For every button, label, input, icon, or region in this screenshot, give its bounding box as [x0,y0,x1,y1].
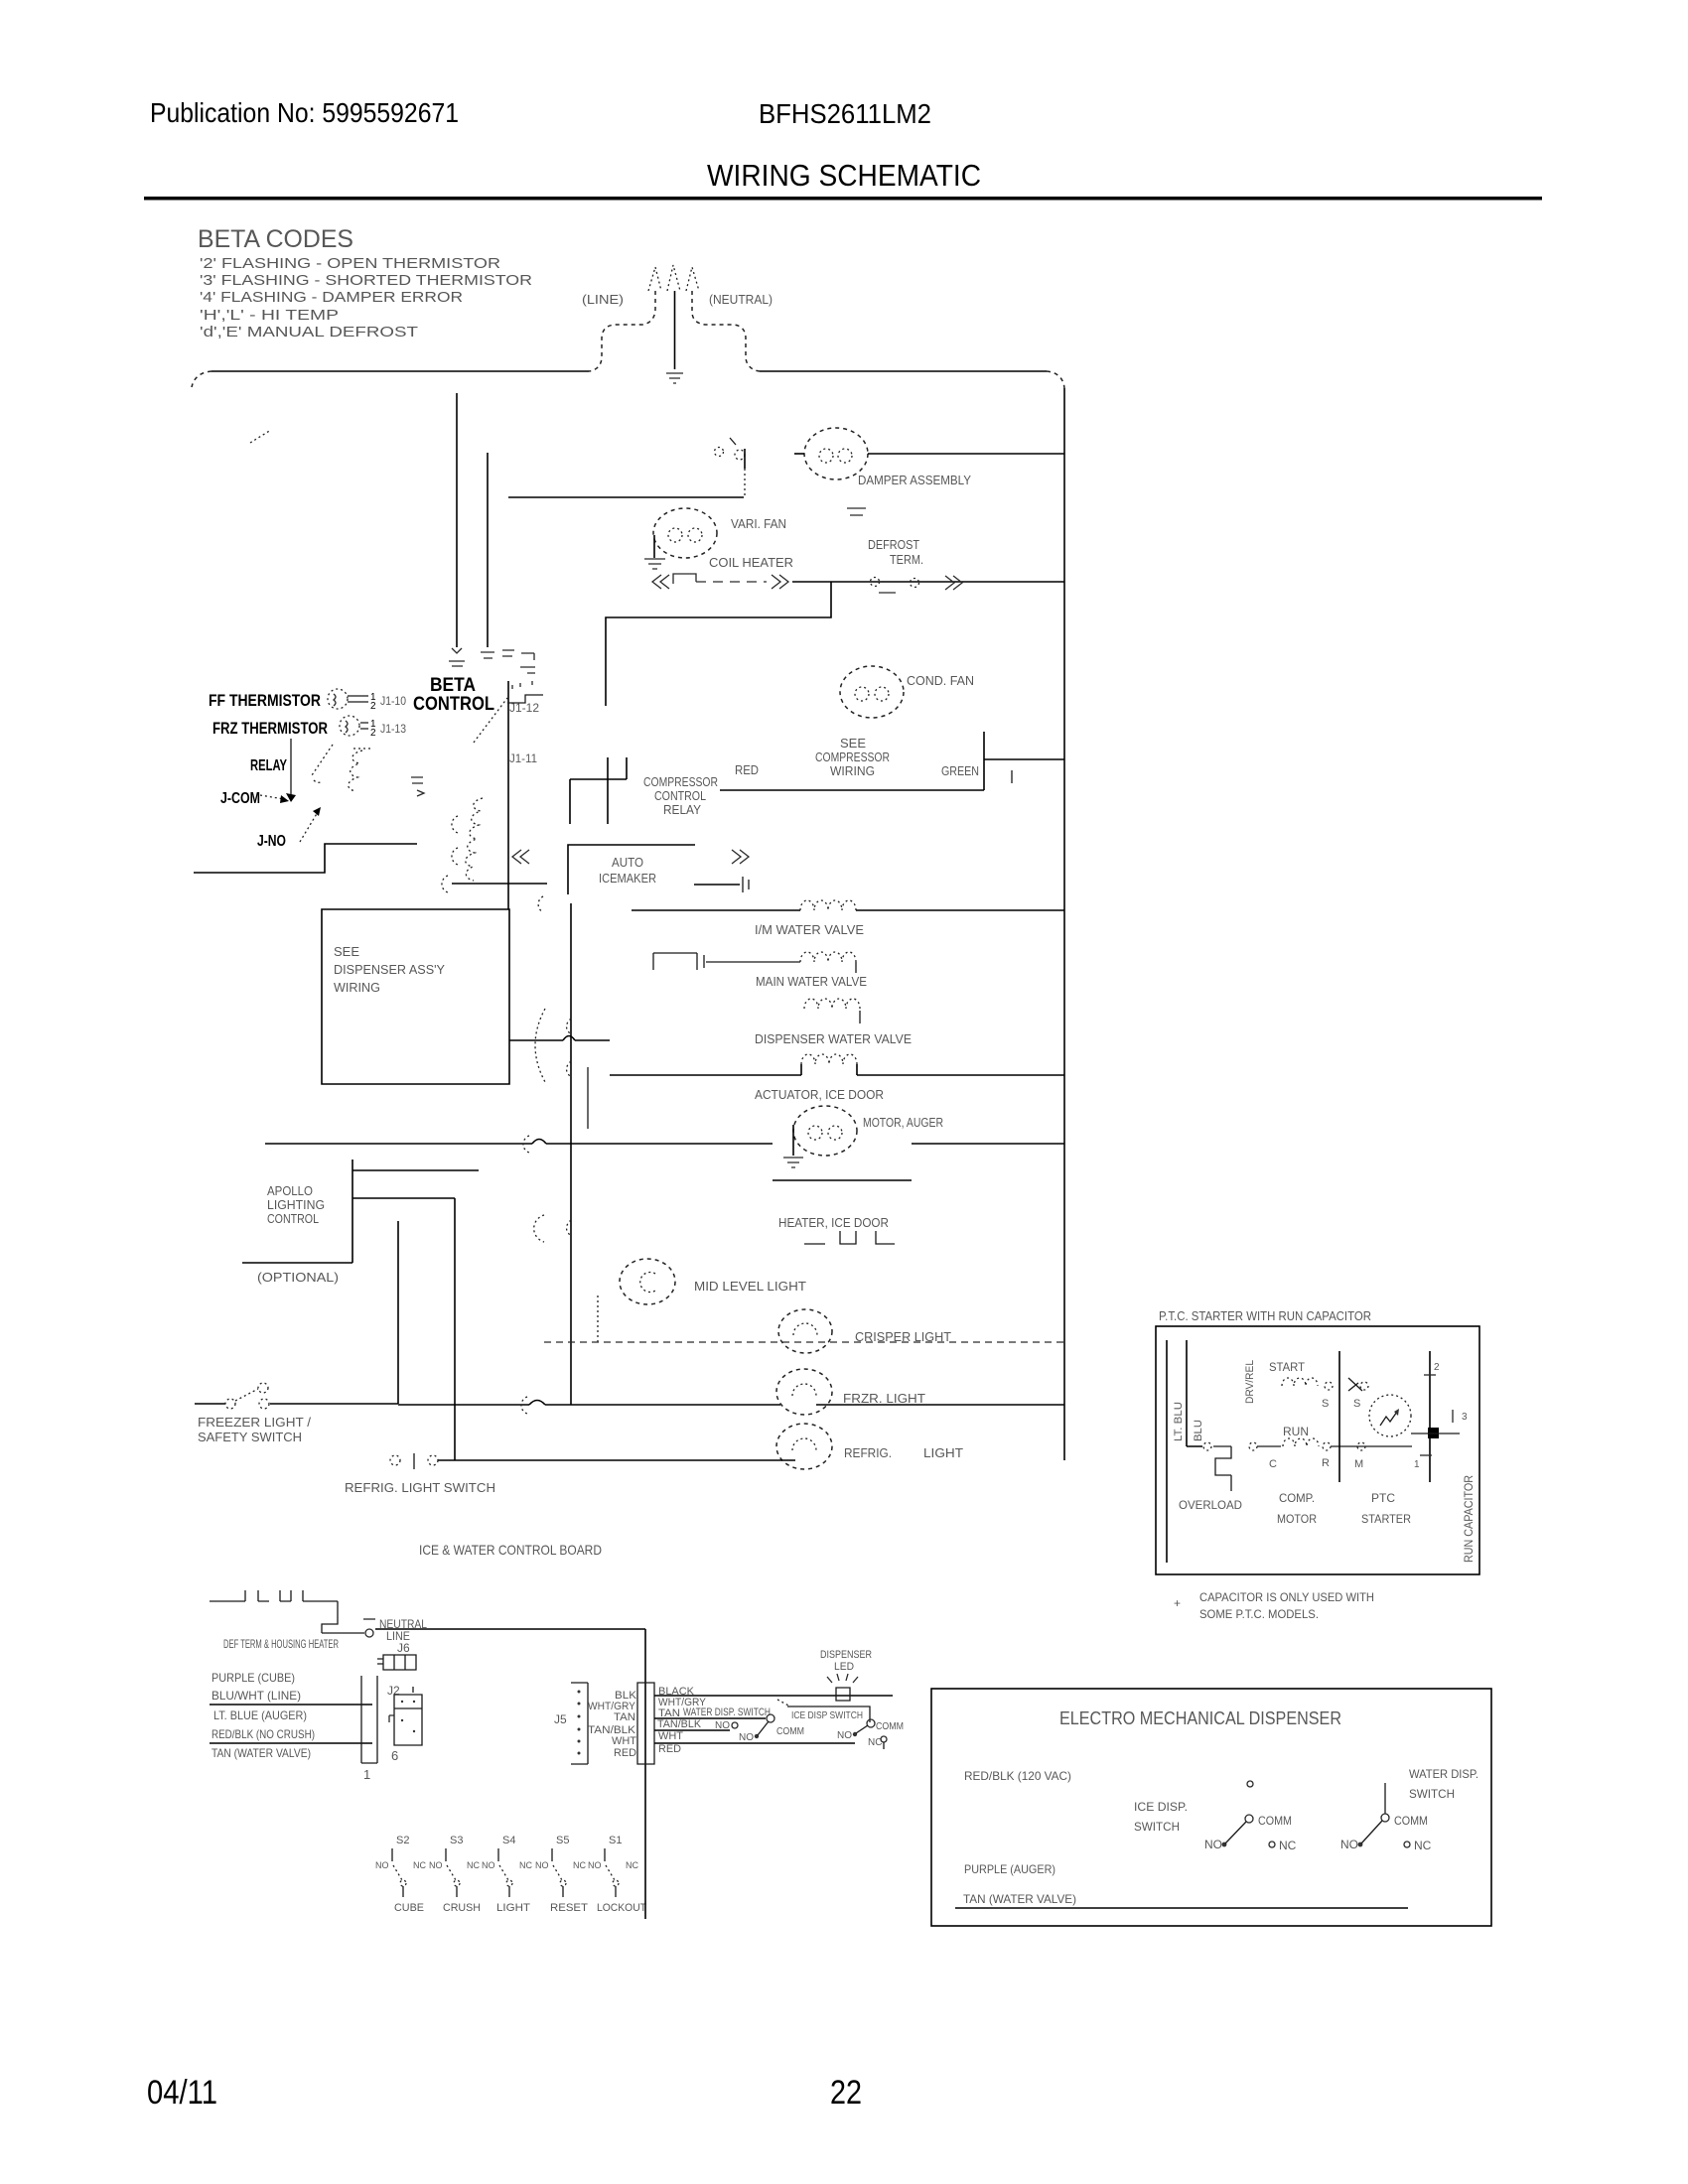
svg-text:COND. FAN: COND. FAN [907,673,974,688]
see dispenser assy box [322,909,509,1084]
green wire tick [1011,770,1013,783]
svg-text:RED/BLK (120 VAC): RED/BLK (120 VAC) [964,1769,1071,1783]
crisper light [778,1309,832,1353]
svg-text:SEE: SEE [840,736,866,751]
svg-text:CUBE: CUBE [394,1902,424,1914]
heater ice door contacts [804,1231,895,1244]
svg-text:NO: NO [1340,1838,1358,1851]
tan wire row [654,1717,766,1719]
power cord plug prong right [686,267,699,291]
svg-text:MOTOR, AUGER: MOTOR, AUGER [863,1115,943,1130]
im water valve coil [800,900,856,910]
selector switch arm arc [535,1009,545,1082]
svg-text:J6: J6 [397,1641,410,1655]
power cord plug prong center [667,265,680,291]
stray contact [1247,1781,1253,1787]
svg-text:DISPENSER: DISPENSER [820,1649,872,1661]
svg-text:RED: RED [735,762,759,777]
svg-text:'3' FLASHING - SHORTED THERMIS: '3' FLASHING - SHORTED THERMISTOR [200,272,532,289]
electro mechanical dispenser box [931,1689,1491,1926]
emd underline [955,1907,1408,1909]
svg-text:WIRING SCHEMATIC: WIRING SCHEMATIC [707,158,981,193]
svg-text:J-COM: J-COM [220,790,260,807]
damper door switch [715,438,746,497]
svg-text:NO: NO [482,1860,495,1870]
svg-text:CONTROL: CONTROL [413,694,494,715]
relay pin marks [411,777,424,796]
svg-text:J1-12: J1-12 [509,701,539,715]
auger supply wire left [265,1143,532,1145]
svg-text:J1-10: J1-10 [380,694,406,708]
blu wht wire [210,1704,372,1706]
wire damper to right bus [868,453,1064,455]
ptc starter box [1156,1326,1479,1574]
svg-text:WATER DISP.: WATER DISP. [1409,1767,1478,1781]
right bus wire [1063,388,1065,1460]
svg-text:SOME P.T.C. MODELS.: SOME P.T.C. MODELS. [1199,1607,1319,1621]
svg-text:STARTER: STARTER [1361,1512,1411,1526]
svg-text:DISPENSER ASS'Y: DISPENSER ASS'Y [334,962,445,977]
svg-text:FF THERMISTOR: FF THERMISTOR [209,691,321,710]
run winding contact C [1249,1442,1257,1450]
svg-text:(LINE): (LINE) [582,292,624,307]
svg-text:BETA: BETA [430,675,476,696]
svg-text:FRZ THERMISTOR: FRZ THERMISTOR [212,719,328,738]
wire run to motor node [1331,1445,1412,1447]
svg-text:2: 2 [1434,1362,1440,1373]
svg-text:SWITCH: SWITCH [1134,1820,1180,1834]
svg-text:'2' FLASHING - OPEN THERMISTOR: '2' FLASHING - OPEN THERMISTOR [200,255,500,272]
svg-text:ICE DISP SWITCH: ICE DISP SWITCH [791,1710,863,1721]
svg-text:J1-13: J1-13 [380,722,406,736]
beta control pin glyphs [449,648,535,673]
svg-text:P.T.C. STARTER WITH RUN CAPACI: P.T.C. STARTER WITH RUN CAPACITOR [1159,1308,1371,1323]
svg-text:C: C [1269,1458,1277,1470]
svg-text:DEF TERM & HOUSING HEATER: DEF TERM & HOUSING HEATER [223,1637,339,1651]
run winding [1283,1438,1319,1446]
svg-text:S4: S4 [502,1835,515,1846]
svg-text:DAMPER ASSEMBLY: DAMPER ASSEMBLY [858,473,971,487]
compressor control relay contacts [570,757,627,824]
svg-text:TAN (WATER VALVE): TAN (WATER VALVE) [211,1746,311,1760]
svg-text:'d','E' MANUAL DEFROST: 'd','E' MANUAL DEFROST [200,324,418,341]
wht wire row [654,1742,855,1744]
J2 cells [389,1695,422,1745]
ptc supply wire [1187,1340,1202,1446]
frzr light wire right [816,1404,1064,1406]
freezer light safety switch [195,1383,398,1409]
svg-text:(OPTIONAL): (OPTIONAL) [257,1270,339,1285]
ptc inner rail [1166,1340,1168,1563]
svg-text:COMM: COMM [1258,1814,1292,1828]
line lead wire [589,291,655,371]
svg-text:GREEN: GREEN [941,763,979,778]
water disp switch [739,1700,804,1743]
emd ice switch [1204,1814,1297,1852]
svg-text:RELAY: RELAY [663,802,701,817]
harness drop [322,1601,364,1633]
svg-text:DISPENSER WATER VALVE: DISPENSER WATER VALVE [755,1031,912,1046]
ptc dial [1369,1395,1411,1436]
svg-text:NO: NO [1204,1838,1222,1851]
svg-text:TAN: TAN [614,1711,635,1723]
ground symbol [666,373,683,383]
wire connector chevrons [945,576,962,590]
svg-text:NC: NC [413,1860,426,1870]
svg-text:PURPLE (AUGER): PURPLE (AUGER) [964,1862,1055,1876]
selector arm arc lower [534,1215,544,1242]
auger ground [783,1158,803,1167]
power cord plug prong left [648,267,661,291]
svg-text:NO: NO [588,1860,602,1870]
neutral wire [375,1629,645,1919]
svg-text:ACTUATOR, ICE DOOR: ACTUATOR, ICE DOOR [755,1087,884,1102]
svg-text:LIGHTING: LIGHTING [267,1197,325,1212]
relay pointer wire [290,739,292,797]
svg-text:04/11: 04/11 [147,2074,217,2112]
board connector [637,1683,654,1764]
apollo wire inner [397,1221,399,1404]
icemaker chevrons [732,850,749,864]
switch S3 [429,1835,481,1914]
run contact R [1323,1442,1331,1450]
selector contact bumps [567,1019,572,1236]
dashed crisper wire [544,1341,1063,1343]
svg-text:S5: S5 [556,1835,569,1846]
J2 pin tick [412,1687,414,1693]
svg-text:NO: NO [837,1730,852,1741]
svg-text:ICE DISP.: ICE DISP. [1134,1800,1188,1814]
dispenser water valve tick [859,1011,861,1024]
J-COM pointer [260,795,284,799]
damper assembly motor [794,428,868,479]
title rule [144,197,1542,201]
svg-text:TERM.: TERM. [890,552,923,567]
icemaker capacitor wire [694,884,740,886]
annotation arrow top-left [250,430,271,443]
svg-text:J-NO: J-NO [257,833,286,850]
switch S5 [535,1835,588,1914]
vari fan ground [644,559,665,569]
main water valve coil [800,952,856,962]
wire heater to defrost thermostat [792,581,1064,583]
svg-text:MAIN WATER VALVE: MAIN WATER VALVE [756,974,867,989]
actuator coil [801,1054,857,1064]
svg-text:MOTOR: MOTOR [1277,1512,1317,1526]
svg-text:PTC: PTC [1371,1491,1395,1505]
ice disp switch [837,1719,904,1749]
overload contact [1203,1442,1211,1450]
defrost thermostat contact marks [847,508,866,515]
start winding contact [1325,1382,1333,1390]
svg-text:1: 1 [1414,1459,1420,1470]
auto icemaker outline [568,845,695,894]
im water valve wire left [632,909,800,911]
frzr light [776,1369,832,1415]
icemaker contact arc [538,896,543,912]
J1-12 connector zigzag [507,695,543,703]
FF thermistor symbol [328,689,376,712]
svg-text:CRUSH: CRUSH [443,1902,481,1914]
svg-text:CONTROL: CONTROL [654,788,706,803]
main water valve wire [706,961,800,963]
wire beta control pin J1 [456,393,458,647]
refrig light [776,1424,832,1469]
svg-text:RUN: RUN [1283,1425,1309,1438]
wire heater drop [606,582,831,706]
svg-text:COMM: COMM [1394,1814,1428,1828]
frzr light wire left [398,1404,529,1406]
svg-text:NO: NO [429,1860,443,1870]
frzr contact arc [521,1397,527,1414]
svg-text:SWITCH: SWITCH [1409,1787,1455,1801]
svg-text:S: S [1322,1398,1329,1410]
svg-text:S2: S2 [396,1835,409,1846]
top-right corner curve [1047,371,1064,388]
auger supply wire right [912,1143,1064,1145]
auger ground wire [792,1125,794,1156]
svg-text:TAN/BLK: TAN/BLK [657,1718,702,1730]
svg-text:WIRING: WIRING [334,980,380,995]
svg-text:APOLLO: APOLLO [267,1183,313,1198]
J5 pin dots [578,1691,581,1755]
switch S1 [588,1835,646,1914]
svg-text:RELAY: RELAY [250,757,287,774]
svg-text:NC: NC [467,1860,480,1870]
contact chevrons [512,850,529,864]
svg-text:RUN CAPACITOR: RUN CAPACITOR [1462,1475,1476,1563]
svg-text:REFRIG.: REFRIG. [844,1445,892,1460]
red blk wire [210,1742,372,1744]
relay armature spring [466,798,483,881]
svg-text:BLU/WHT (LINE): BLU/WHT (LINE) [211,1689,301,1703]
im water valve wire right [856,909,1064,911]
wire beta control pin to dispenser box [507,681,509,909]
top-left corner curve [192,371,211,387]
overload protector [1213,1446,1231,1491]
svg-text:WIRING: WIRING [830,763,875,778]
green wire [984,732,1064,790]
main water valve tick [855,962,857,973]
svg-text:LOCKOUT: LOCKOUT [597,1902,646,1914]
svg-text:ICE & WATER CONTROL BOARD: ICE & WATER CONTROL BOARD [419,1542,602,1558]
capacitor branch wire [1429,1351,1431,1482]
ice disp switch bracket [787,1706,870,1722]
coil heater connector left [652,575,669,589]
J5 bracket [571,1683,588,1764]
condenser fan motor [840,666,904,718]
coil heater element dashed [673,574,696,584]
svg-text:LED: LED [834,1661,854,1673]
svg-text:DEFROST: DEFROST [868,537,919,552]
svg-text:Publication No: 5995592671: Publication No: 5995592671 [150,97,459,128]
svg-text:NO: NO [375,1860,389,1870]
svg-text:NO: NO [739,1732,754,1743]
svg-text:S: S [1353,1398,1360,1410]
svg-text:WHT: WHT [612,1735,636,1747]
svg-text:NO: NO [715,1720,730,1731]
svg-text:WATER DISP. SWITCH: WATER DISP. SWITCH [683,1706,771,1718]
refrig light switch [390,1453,438,1469]
svg-text:TAN (WATER VALVE): TAN (WATER VALVE) [963,1892,1076,1906]
svg-text:+: + [1174,1596,1181,1610]
svg-text:CONTROL: CONTROL [267,1211,319,1226]
auger contact arc [523,1136,529,1153]
svg-text:R: R [1322,1457,1330,1469]
neutral contact [365,1629,373,1637]
relay pointer dashed [312,745,333,775]
mid level light [620,1259,675,1304]
svg-text:COMPRESSOR: COMPRESSOR [643,774,718,789]
selector stub wire [587,1067,589,1129]
svg-text:J5: J5 [554,1712,567,1726]
svg-text:SAFETY SWITCH: SAFETY SWITCH [198,1430,302,1444]
svg-text:M: M [1354,1458,1363,1470]
svg-text:DRV/REL: DRV/REL [1244,1360,1256,1404]
light selector wire vertical [570,903,572,1405]
svg-text:BFHS2611LM2: BFHS2611LM2 [759,98,931,129]
svg-text:REFRIG. LIGHT SWITCH: REFRIG. LIGHT SWITCH [345,1480,495,1495]
svg-text:WHT: WHT [658,1730,683,1742]
main water valve connector [653,953,704,970]
dashed stub to mid light [597,1296,599,1342]
svg-text:2: 2 [370,728,376,739]
svg-text:NC: NC [1279,1839,1297,1852]
emd water switch [1340,1783,1432,1852]
svg-text:START: START [1269,1360,1306,1374]
svg-text:2: 2 [370,701,376,712]
dispenser led [820,1649,872,1701]
defrost thermostat contacts [871,578,919,594]
relay coil [349,749,371,791]
neutral lead wire [692,291,760,371]
svg-text:COMP.: COMP. [1279,1491,1315,1505]
auger return wire [773,1179,912,1181]
ptc switch contact [1322,1378,1368,1410]
pointer to J1-12 [474,698,507,743]
icemaker capacitor [743,877,749,892]
svg-text:ICEMAKER: ICEMAKER [599,871,656,886]
svg-text:LT. BLU: LT. BLU [1173,1402,1185,1441]
svg-text:BETA CODES: BETA CODES [198,225,353,253]
J6 connector [377,1655,416,1670]
svg-text:J1-11: J1-11 [509,751,537,765]
wire J-NO step [194,844,417,873]
coil heater connector right [772,575,788,589]
vari fan ground wire [653,535,655,558]
svg-text:RED/BLK (NO CRUSH): RED/BLK (NO CRUSH) [211,1727,315,1741]
svg-text:RED: RED [614,1747,636,1759]
run capacitor [1428,1428,1439,1438]
svg-text:6: 6 [391,1748,398,1763]
svg-text:NO: NO [535,1860,549,1870]
svg-text:AUTO: AUTO [612,855,643,870]
svg-text:NC: NC [573,1860,586,1870]
run winding wire [1257,1445,1281,1447]
motor branch wire [1338,1351,1340,1482]
svg-text:LIGHT: LIGHT [923,1445,963,1460]
svg-text:VARI. FAN: VARI. FAN [731,516,786,531]
wire beta control pin J2 [487,453,489,647]
svg-text:MID LEVEL LIGHT: MID LEVEL LIGHT [694,1279,806,1294]
relay contact arcs [452,816,458,833]
svg-text:NC: NC [868,1737,882,1748]
svg-text:PURPLE (CUBE): PURPLE (CUBE) [211,1671,295,1685]
FRZ thermistor symbol [340,716,376,739]
relay common wire [452,883,547,885]
switch S4 [482,1835,532,1914]
svg-text:S3: S3 [450,1835,463,1846]
svg-text:FREEZER LIGHT /: FREEZER LIGHT / [198,1415,311,1430]
red wire to compressor [720,789,984,791]
black wire row [654,1695,893,1697]
actuator wire right [857,1064,1064,1075]
wire to damper switch [508,496,744,498]
svg-text:ELECTRO MECHANICAL DISPENSER: ELECTRO MECHANICAL DISPENSER [1059,1708,1341,1728]
actuator wire left [610,1064,801,1075]
J2 connector rails [361,1676,377,1763]
svg-text:OVERLOAD: OVERLOAD [1179,1498,1242,1512]
svg-text:(NEUTRAL): (NEUTRAL) [709,292,773,307]
switch S2 [375,1835,426,1914]
svg-text:RESET: RESET [550,1902,588,1914]
J-NO pointer [300,812,318,842]
svg-text:CAPACITOR IS ONLY USED WITH: CAPACITOR IS ONLY USED WITH [1199,1590,1374,1604]
motor contact M [1357,1442,1365,1450]
svg-text:COIL HEATER: COIL HEATER [709,555,793,570]
svg-text:3: 3 [1462,1412,1468,1423]
apollo lighting control outline [242,1160,479,1263]
motor auger [793,1106,857,1156]
svg-text:COMM: COMM [776,1726,804,1737]
svg-text:COMM: COMM [876,1721,904,1732]
svg-text:LIGHT: LIGHT [496,1902,530,1914]
dispenser box wire [509,1039,563,1041]
ground wire [674,291,676,369]
svg-text:NC: NC [626,1860,638,1870]
harness comb [210,1590,338,1601]
svg-text:NC: NC [519,1860,532,1870]
svg-text:COMPRESSOR: COMPRESSOR [815,750,890,764]
svg-text:NC: NC [1414,1839,1432,1852]
start winding [1282,1378,1318,1386]
svg-text:S1: S1 [609,1835,622,1846]
svg-text:BLU: BLU [1193,1420,1204,1441]
dispenser water valve coil [804,999,860,1009]
apollo wire right [454,1198,456,1460]
svg-text:'4' FLASHING - DAMPER ERROR: '4' FLASHING - DAMPER ERROR [200,289,463,306]
J1-12 pin ticks [512,681,532,689]
tan blk wire row [654,1729,730,1731]
svg-text:22: 22 [830,2074,862,2112]
svg-text:RED: RED [658,1743,681,1755]
svg-text:SEE: SEE [334,944,359,959]
svg-text:FRZR. LIGHT: FRZR. LIGHT [843,1391,925,1406]
refrig light wire [438,1459,795,1461]
svg-text:'H','L' - HI TEMP: 'H','L' - HI TEMP [200,307,339,324]
svg-text:1: 1 [363,1767,370,1782]
vari fan motor [653,508,717,558]
svg-text:I/M WATER VALVE: I/M WATER VALVE [755,922,864,937]
top bus wire left segment [211,370,589,372]
svg-text:HEATER, ICE DOOR: HEATER, ICE DOOR [778,1215,889,1230]
svg-text:CRISPER LIGHT: CRISPER LIGHT [855,1329,951,1344]
svg-text:LT. BLUE (AUGER): LT. BLUE (AUGER) [213,1708,307,1722]
top bus wire right segment [760,370,1047,372]
